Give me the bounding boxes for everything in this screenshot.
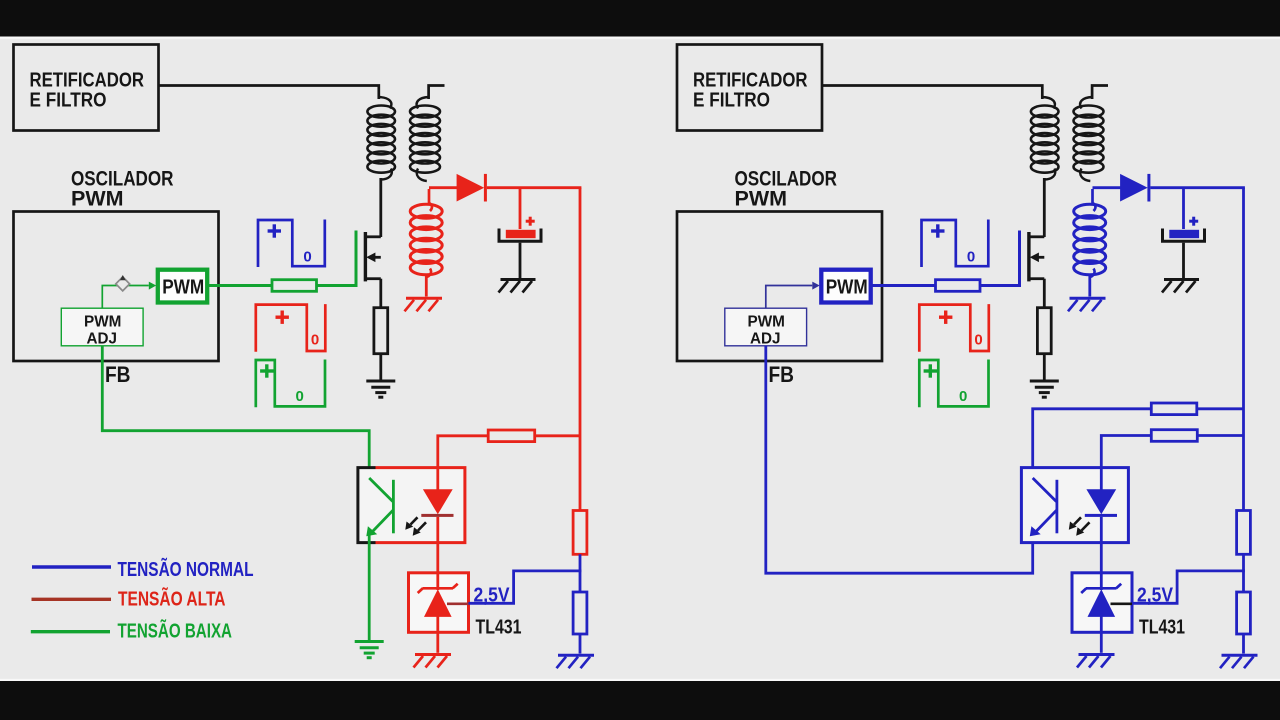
waveform normal (blue) 2: [922, 220, 989, 268]
waveform low voltage (green) 2: [919, 360, 988, 408]
transformer T2 auxiliary winding: [1074, 86, 1109, 182]
ground TL431 (circuit 2): [1077, 655, 1115, 668]
wire PWM output to gate resistor: [871, 284, 936, 287]
optocoupler U2o phototransistor: [1030, 478, 1057, 536]
svg-text:PWM: PWM: [735, 188, 788, 211]
wire TL431 anode to ground: [1100, 615, 1103, 653]
svg-text:ADJ: ADJ: [750, 330, 781, 347]
resistor R1e divider upper: [573, 511, 587, 555]
block PWM ADJ (circuit 2): [725, 308, 807, 347]
svg-text:0: 0: [974, 331, 982, 348]
optocoupler U1o LED: [421, 467, 453, 544]
resistor R1c feedback: [488, 430, 535, 442]
diode D2 output rectifier: [1120, 174, 1150, 202]
resistor R2e divider upper: [1237, 511, 1251, 555]
capacitor C1 output filter: [499, 217, 541, 242]
transistor Q1 MOSFET: [364, 232, 381, 281]
waveform high voltage (red) 1: [256, 304, 325, 352]
svg-text:0: 0: [311, 331, 319, 348]
light arrows: [405, 517, 426, 536]
transformer T1 auxiliary winding: [410, 86, 445, 182]
svg-text:0: 0: [967, 248, 975, 265]
optocoupler U1o package: [358, 468, 465, 543]
wire capacitor to ground: [1182, 243, 1185, 279]
resistor R1a gate: [272, 280, 317, 292]
wire collector resistor to opto collector: [1033, 409, 1152, 480]
resistor R2f divider lower: [1237, 592, 1251, 634]
svg-text:TENSÃO BAIXA: TENSÃO BAIXA: [118, 620, 233, 643]
ground opto emitter (green): [355, 642, 384, 658]
ground divider (circuit 2): [1220, 655, 1258, 668]
ground capacitor (circuit 1): [499, 280, 536, 293]
svg-text:TENSÃO ALTA: TENSÃO ALTA: [118, 588, 226, 611]
wire FB node to opto emitter: [766, 346, 1033, 573]
block oscillator box (circuit 2): [677, 212, 882, 362]
waveform low voltage (green) 1: [256, 360, 325, 408]
svg-text:E FILTRO: E FILTRO: [30, 89, 107, 112]
wire MOSFET source to resistor: [1043, 279, 1046, 308]
TL431 U1t zener symbol: [418, 584, 458, 617]
svg-text:PWM: PWM: [826, 275, 868, 298]
wire transformer primary to MOSFET drain: [379, 178, 382, 237]
svg-text:PWM: PWM: [162, 275, 204, 298]
light arrows: [1069, 517, 1090, 536]
block PWM ADJ (circuit 1): [61, 308, 143, 347]
diode D1 output rectifier: [457, 174, 487, 202]
wire secondary to diode: [1093, 186, 1121, 189]
wire output rail to collector resistor: [1197, 407, 1244, 410]
wire capacitor to ground: [519, 243, 522, 279]
resistor R2a gate: [936, 280, 981, 292]
arrowhead into PWM: [812, 282, 819, 290]
transformer T1 primary winding: [367, 97, 395, 180]
svg-text:2,5V: 2,5V: [1137, 585, 1174, 607]
wire PWM ADJ to PWM input: [102, 286, 149, 309]
wire divider middle: [579, 554, 582, 592]
wire secondary to diode: [429, 186, 457, 189]
wire output to capacitor: [1182, 188, 1185, 229]
wire divider to ground: [579, 634, 582, 654]
optocoupler U1o phototransistor: [366, 478, 393, 536]
wire divider to ground: [1242, 634, 1245, 654]
optocoupler U2o LED: [1085, 467, 1117, 544]
resistor R1b source: [374, 308, 388, 354]
svg-text:ADJ: ADJ: [87, 330, 118, 347]
wire rectifier output to transformer: [823, 86, 1043, 100]
wire opto emitter to ground: [368, 534, 371, 641]
svg-text:2,5V: 2,5V: [474, 585, 511, 607]
wire rectifier output to transformer: [159, 86, 379, 100]
wire source resistor to ground: [1043, 354, 1046, 380]
block oscillator box (circuit 1): [14, 212, 219, 362]
wire gate resistor to MOSFET gate: [317, 231, 357, 286]
legend line low (green): [31, 630, 110, 633]
ground secondary winding (circuit 1): [405, 298, 443, 311]
block RETIFICADOR E FILTRO (circuit 2): [677, 45, 822, 131]
waveform normal (blue) 1: [258, 220, 325, 268]
wire FB node to opto collector: [102, 346, 369, 480]
block RETIFICADOR E FILTRO (circuit 1): [14, 45, 159, 131]
ground secondary winding (circuit 2): [1068, 298, 1106, 311]
wire PWM ADJ to PWM input: [766, 286, 813, 309]
ground divider (circuit 1): [557, 655, 595, 668]
wire output to capacitor: [519, 188, 522, 229]
svg-text:0: 0: [959, 388, 967, 405]
transformer T2 secondary winding: [1074, 189, 1106, 297]
block PWM U1: [158, 270, 207, 303]
adjustment diamond icon: [116, 275, 130, 291]
wire feedback resistor to opto LED: [438, 436, 488, 468]
label OSCILADOR PWM (circuit 2): [735, 168, 838, 211]
wire divider middle: [1242, 554, 1245, 592]
ground capacitor (circuit 2): [1162, 280, 1199, 293]
label OSCILADOR PWM (circuit 1): [71, 168, 174, 211]
wire gate resistor to MOSFET gate: [980, 231, 1020, 286]
svg-text:TL431: TL431: [476, 617, 522, 639]
wire diode to output rail: [487, 186, 582, 189]
TL431 reference pin line: [1111, 602, 1133, 605]
svg-text:0: 0: [296, 388, 304, 405]
resistor R2d LED feed: [1151, 430, 1197, 442]
svg-text:TL431: TL431: [1139, 617, 1185, 639]
TL431 U2t zener symbol: [1081, 584, 1121, 617]
TL431 U2t box: [1072, 573, 1132, 633]
resistor R2b source: [1037, 308, 1051, 354]
resistor R1f divider lower: [573, 592, 587, 634]
svg-text:PWM: PWM: [748, 314, 785, 331]
transformer T2 primary winding: [1031, 97, 1059, 180]
wire opto LED to TL431: [1100, 542, 1103, 590]
arrowhead into PWM: [149, 282, 156, 290]
svg-text:0: 0: [303, 248, 311, 265]
svg-text:TENSÃO NORMAL: TENSÃO NORMAL: [118, 558, 254, 581]
TL431 reference pin line: [447, 602, 469, 605]
legend line normal (blue): [32, 565, 111, 569]
transformer T1 secondary winding: [410, 189, 442, 297]
wire TL431 anode to ground: [436, 615, 439, 653]
wire opto LED to TL431: [436, 542, 439, 590]
wire transformer primary to MOSFET drain: [1043, 178, 1046, 237]
wire TL431 reference to divider tap: [1132, 571, 1245, 603]
wire LED resistor to opto LED: [1101, 436, 1151, 469]
capacitor C2 output filter: [1163, 217, 1205, 242]
wire MOSFET source to resistor: [379, 279, 382, 308]
legend line high (dark red): [32, 598, 112, 601]
wire output rail to feedback resistor: [535, 434, 580, 437]
svg-text:FB: FB: [105, 362, 131, 387]
wire output rail to LED resistor: [1197, 434, 1243, 437]
TL431 U1t box: [409, 573, 469, 633]
wire PWM output to gate resistor: [208, 284, 273, 287]
optocoupler U2o package: [1021, 468, 1128, 543]
ground MOSFET source (circuit 2): [1030, 381, 1059, 397]
svg-text:PWM: PWM: [71, 188, 124, 211]
svg-text:PWM: PWM: [84, 314, 121, 331]
wire output rail down: [579, 188, 582, 511]
ground MOSFET source (circuit 1): [366, 381, 395, 397]
wire TL431 reference to divider tap: [469, 571, 582, 603]
wire output rail down: [1242, 188, 1245, 511]
svg-text:E FILTRO: E FILTRO: [693, 89, 770, 112]
svg-text:FB: FB: [769, 362, 795, 387]
ground TL431 (circuit 1): [414, 655, 452, 668]
resistor R2c collector feed: [1151, 403, 1197, 415]
wire diode to output rail: [1150, 186, 1245, 189]
block PWM U2: [821, 270, 870, 303]
wire source resistor to ground: [379, 354, 382, 380]
waveform high voltage (red) 2: [919, 304, 989, 352]
transistor Q2 MOSFET: [1027, 232, 1044, 281]
